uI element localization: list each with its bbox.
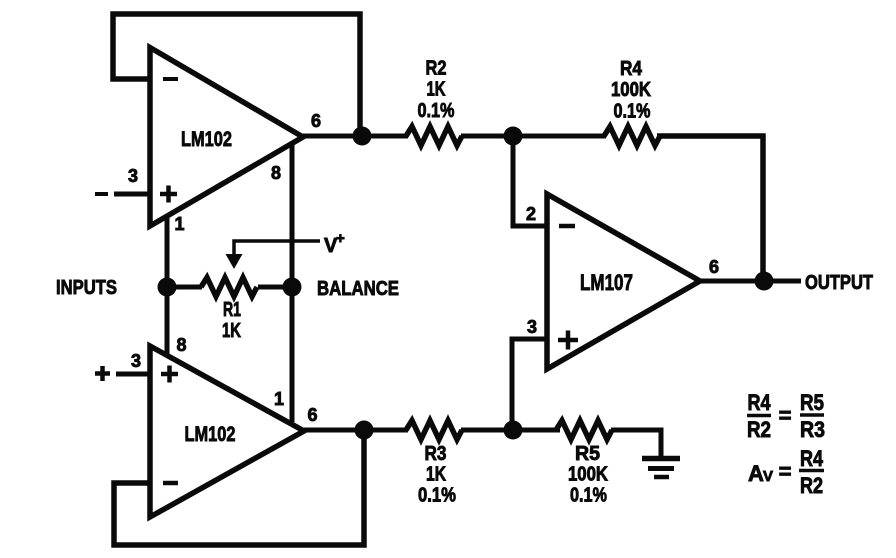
U1 inverting input minus symbol <box>163 77 178 81</box>
input polarity plus (bottom input) <box>95 366 110 381</box>
svg-text:R5: R5 <box>575 443 600 465</box>
resistor R4 <box>604 127 660 146</box>
op-amp U1 LM102 (top) <box>150 48 303 227</box>
svg-text:0.1%: 0.1% <box>418 100 455 122</box>
svg-text:3: 3 <box>131 351 141 371</box>
svg-text:LM102: LM102 <box>185 423 236 446</box>
node: OUTPUT junction <box>755 272 774 291</box>
svg-text:LM102: LM102 <box>181 128 232 151</box>
svg-text:8: 8 <box>271 163 281 183</box>
wire: U1 output to R2 <box>303 134 408 139</box>
svg-text:R3: R3 <box>425 443 447 465</box>
equation fraction bars <box>747 414 771 418</box>
svg-text:INPUTS: INPUTS <box>56 277 117 299</box>
wire: U2 output to R3 <box>304 428 408 433</box>
svg-text:8: 8 <box>176 335 186 355</box>
wire: R4 to output node <box>657 136 763 281</box>
resistor R2 <box>406 127 462 146</box>
svg-text:R2: R2 <box>747 417 771 442</box>
svg-text:3: 3 <box>527 317 537 337</box>
svg-text:R3: R3 <box>800 417 825 442</box>
svg-text:1K: 1K <box>222 320 241 342</box>
svg-text:R4: R4 <box>748 390 772 415</box>
node: U1 output junction <box>353 127 372 146</box>
wire: INPUTS node to R1 <box>167 285 202 290</box>
V+ supply arrow wire <box>234 241 320 256</box>
svg-text:=: = <box>779 459 792 484</box>
svg-text:0.1%: 0.1% <box>570 485 607 507</box>
svg-text:R2: R2 <box>800 473 823 498</box>
node: R2/R4 junction <box>504 127 523 146</box>
U1 non-inverting plus symbol <box>160 186 177 203</box>
svg-text:V: V <box>763 468 773 485</box>
svg-text:1: 1 <box>174 214 184 234</box>
resistor R3 <box>406 421 462 440</box>
svg-text:0.1%: 0.1% <box>418 485 456 507</box>
svg-text:6: 6 <box>709 257 719 277</box>
svg-text:R4: R4 <box>800 446 824 471</box>
U2 inverting input minus symbol <box>163 481 178 486</box>
svg-text:1K: 1K <box>426 464 446 486</box>
wire: R5 to ground <box>611 430 661 458</box>
U3 non-inverting plus symbol <box>558 331 578 350</box>
input polarity minus (top input) <box>95 192 108 196</box>
ground <box>642 456 680 462</box>
svg-text:2: 2 <box>526 204 536 224</box>
svg-text:1K: 1K <box>427 79 446 101</box>
wire: R3 junction to R5 <box>461 428 560 433</box>
resistor R5 <box>556 421 612 440</box>
U3 inverting input minus symbol <box>559 224 575 229</box>
wire: R2/R4 junction down to LM107 pin 2 <box>513 136 547 226</box>
wire: LM107 pin 3 down to R3/R5 junction <box>512 339 547 430</box>
svg-text:OUTPUT: OUTPUT <box>805 272 873 294</box>
wire: U1 pin3 input stub <box>114 192 150 197</box>
wire: INPUTS node to U2 pin8 <box>165 287 170 357</box>
svg-text:6: 6 <box>307 405 317 425</box>
svg-text:1: 1 <box>274 389 284 409</box>
svg-text:R5: R5 <box>800 390 824 415</box>
svg-text:100K: 100K <box>568 464 608 486</box>
wire: U2 feedback loop <box>114 430 364 545</box>
node: INPUTS junction <box>158 278 177 297</box>
svg-text:100K: 100K <box>611 79 651 101</box>
node: BALANCE junction <box>283 278 302 297</box>
svg-text:+: + <box>336 230 345 247</box>
svg-text:BALANCE: BALANCE <box>317 278 399 300</box>
wire: R1 to BALANCE node <box>258 285 292 290</box>
wire: U1 feedback loop (output to inverting input) <box>113 14 360 136</box>
wire: U1 pin8 / BALANCE / U2 pin1 vertical <box>290 145 295 422</box>
U2 non-inverting plus symbol <box>161 366 178 383</box>
wire: U1 pin1 down to INPUTS node <box>165 214 170 287</box>
svg-text:R1: R1 <box>223 299 241 321</box>
op-amp U3 LM107 <box>547 194 700 369</box>
node: R3/R5 junction <box>504 421 523 440</box>
svg-text:A: A <box>748 461 764 486</box>
svg-text:R2: R2 <box>426 58 447 80</box>
svg-text:0.1%: 0.1% <box>614 101 651 123</box>
svg-text:6: 6 <box>311 111 321 131</box>
svg-text:LM107: LM107 <box>580 270 633 295</box>
wire: R2 to R4 <box>461 134 606 139</box>
svg-text:3: 3 <box>128 166 138 186</box>
svg-text:=: = <box>779 403 792 428</box>
op-amp U2 LM102 (bottom) <box>150 346 304 517</box>
resistor R1 <box>201 278 257 297</box>
wire: U2 pin3 input stub <box>116 372 150 377</box>
wire: U3 output to OUTPUT <box>700 279 801 284</box>
V+ arrowhead <box>226 254 243 269</box>
node: U2 output junction <box>355 421 374 440</box>
svg-text:R4: R4 <box>620 58 643 80</box>
